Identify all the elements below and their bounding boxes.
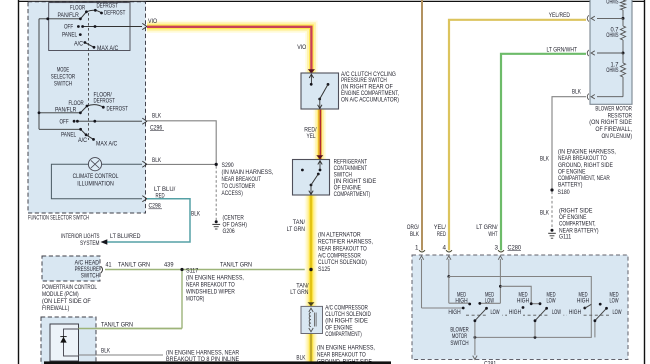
svg-text:PANEL: PANEL	[62, 32, 78, 39]
svg-text:TAN/LT GRN: TAN/LT GRN	[220, 261, 252, 268]
svg-text:TAN/LT GRN: TAN/LT GRN	[101, 321, 133, 328]
svg-text:LT GRN/WHT: LT GRN/WHT	[547, 47, 578, 54]
svg-text:FIREWALL): FIREWALL)	[42, 305, 69, 312]
svg-text:PANEL: PANEL	[61, 131, 77, 138]
svg-text:COMPARTMENT): COMPARTMENT)	[325, 331, 362, 338]
svg-text:LOW: LOW	[552, 309, 561, 316]
svg-text:VIO: VIO	[148, 18, 157, 25]
svg-text:G111: G111	[559, 234, 572, 241]
svg-text:BLK: BLK	[152, 157, 162, 164]
svg-text:A/C: A/C	[74, 40, 83, 47]
svg-text:OFF: OFF	[60, 119, 69, 126]
svg-text:HIGH: HIGH	[569, 309, 582, 316]
svg-text:NEAR BREAKOUT TO: NEAR BREAKOUT TO	[186, 281, 235, 288]
svg-text:A/C: A/C	[78, 137, 87, 144]
svg-text:OHMS: OHMS	[606, 67, 618, 74]
svg-text:LT GRN: LT GRN	[290, 289, 309, 296]
svg-text:MAX A/C: MAX A/C	[96, 140, 118, 147]
svg-text:ILLUMINATION: ILLUMINATION	[77, 181, 114, 188]
svg-text:CLIMATE CONTROL: CLIMATE CONTROL	[73, 173, 119, 180]
svg-text:S117: S117	[186, 267, 199, 274]
svg-text:NEAR BREAKOUT: NEAR BREAKOUT	[222, 176, 262, 183]
svg-text:1: 1	[415, 244, 419, 251]
svg-text:MAX A/C: MAX A/C	[97, 45, 119, 52]
svg-text:WHT: WHT	[488, 231, 497, 238]
svg-text:DEFROST: DEFROST	[94, 97, 115, 104]
svg-text:C281: C281	[484, 360, 497, 364]
svg-text:YEL: YEL	[307, 133, 316, 140]
svg-text:LT GRN: LT GRN	[287, 226, 306, 233]
svg-text:MOTOR): MOTOR)	[186, 295, 204, 302]
svg-text:ORG/: ORG/	[407, 224, 419, 231]
svg-text:DEFROST: DEFROST	[97, 3, 118, 10]
svg-text:(ON LEFT SIDE OF: (ON LEFT SIDE OF	[42, 298, 91, 305]
svg-text:OFF: OFF	[64, 23, 73, 30]
svg-text:LT BLU/RED: LT BLU/RED	[110, 233, 141, 240]
svg-text:ON A/C ACCUMULATOR): ON A/C ACCUMULATOR)	[341, 96, 399, 103]
svg-text:S180: S180	[558, 189, 571, 196]
svg-text:SWITCH: SWITCH	[54, 80, 73, 87]
svg-text:41: 41	[106, 261, 112, 268]
svg-text:VIO: VIO	[297, 44, 306, 51]
svg-text:LOW: LOW	[490, 309, 499, 316]
svg-text:ACCESS): ACCESS)	[222, 190, 243, 197]
svg-text:BLK: BLK	[410, 231, 420, 238]
svg-text:(IN ENGINE HARNESS,: (IN ENGINE HARNESS,	[317, 344, 375, 351]
svg-text:PAN/FLR: PAN/FLR	[55, 106, 77, 113]
svg-text:DEFROST: DEFROST	[104, 10, 125, 17]
svg-text:SWITCH: SWITCH	[81, 272, 100, 279]
svg-text:POWERTRAIN CONTROL: POWERTRAIN CONTROL	[42, 284, 97, 291]
svg-text:FUNCTION SELECTOR SWITCH: FUNCTION SELECTOR SWITCH	[28, 214, 89, 221]
svg-text:TO CUSTOMER: TO CUSTOMER	[222, 183, 256, 190]
svg-text:MODE: MODE	[57, 66, 69, 73]
svg-text:RED: RED	[156, 193, 165, 200]
svg-text:PAN/FLR: PAN/FLR	[58, 12, 80, 19]
svg-text:SWITCH: SWITCH	[450, 340, 469, 347]
svg-text:WINDSHIELD WIPER: WINDSHIELD WIPER	[186, 288, 235, 295]
svg-text:G206: G206	[223, 228, 236, 235]
svg-text:LT GRN/: LT GRN/	[476, 224, 498, 231]
svg-text:YEL/RED: YEL/RED	[549, 12, 571, 19]
svg-text:TAN/LT GRN: TAN/LT GRN	[118, 261, 150, 268]
svg-text:YEL/: YEL/	[434, 224, 446, 231]
svg-text:TAN/: TAN/	[293, 219, 305, 226]
svg-text:BLK: BLK	[540, 155, 550, 162]
svg-text:RED: RED	[437, 231, 446, 238]
svg-text:(IN MAIN HARNESS,: (IN MAIN HARNESS,	[222, 169, 274, 176]
svg-text:LOW: LOW	[612, 309, 621, 316]
svg-text:BLK: BLK	[572, 88, 582, 95]
svg-text:MODULE (PCM): MODULE (PCM)	[42, 291, 79, 298]
svg-text:HIGH: HIGH	[577, 297, 590, 304]
svg-text:HIGH: HIGH	[455, 297, 468, 304]
svg-text:SYSTEM: SYSTEM	[80, 240, 100, 247]
svg-text:OHMS: OHMS	[606, 0, 618, 5]
svg-text:S290: S290	[222, 162, 235, 169]
svg-text:OHMS: OHMS	[606, 32, 618, 39]
svg-text:FLOOR: FLOOR	[70, 4, 86, 11]
svg-text:BLK: BLK	[152, 113, 162, 120]
svg-text:BLK: BLK	[540, 209, 550, 216]
svg-text:439: 439	[164, 261, 174, 268]
svg-text:HIGH: HIGH	[448, 309, 461, 316]
svg-text:BLK: BLK	[191, 211, 201, 218]
svg-text:DEFROST: DEFROST	[107, 105, 128, 112]
svg-text:LOW: LOW	[485, 297, 494, 304]
svg-text:HIGH: HIGH	[509, 309, 522, 316]
svg-text:ON PLENUM): ON PLENUM)	[602, 133, 633, 140]
svg-text:COMPARTMENT): COMPARTMENT)	[334, 191, 371, 198]
svg-text:LOW: LOW	[609, 297, 618, 304]
svg-text:BLK: BLK	[101, 347, 111, 354]
svg-text:INTERIOR LIGHTS: INTERIOR LIGHTS	[61, 233, 100, 240]
svg-text:NEAR BREAKOUT TO: NEAR BREAKOUT TO	[317, 351, 366, 358]
svg-text:BLK: BLK	[296, 354, 306, 361]
svg-text:(IN ENGINE HARNESS,: (IN ENGINE HARNESS,	[186, 274, 244, 281]
svg-text:LOW: LOW	[546, 297, 555, 304]
svg-text:HIGH: HIGH	[517, 297, 530, 304]
svg-text:S125: S125	[318, 266, 331, 273]
svg-text:BATTERY): BATTERY)	[558, 182, 582, 189]
svg-text:SELECTOR: SELECTOR	[51, 73, 76, 80]
